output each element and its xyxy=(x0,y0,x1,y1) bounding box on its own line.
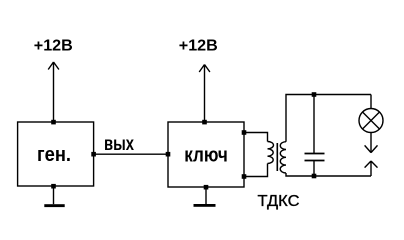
svg-text:+12В: +12В xyxy=(34,38,73,55)
wire вых xyxy=(94,153,168,155)
junction at generator box bottom xyxy=(51,184,56,189)
power arrow (right) xyxy=(199,65,210,123)
junction bottom rail / capacitor xyxy=(312,174,317,179)
ground wire (key) xyxy=(205,187,207,204)
generator box ген. xyxy=(18,122,94,186)
junction at key box bottom xyxy=(204,185,209,190)
transformer T1 secondary winding xyxy=(280,142,286,173)
ground bar (key) xyxy=(194,204,216,207)
junction вых left xyxy=(91,152,96,157)
capacitor plates xyxy=(305,154,325,161)
capacitor top lead xyxy=(313,95,315,154)
ground wire (generator) xyxy=(53,186,55,204)
wire lamp bottom xyxy=(370,133,372,153)
wire secondary bottom and bottom rail xyxy=(286,173,371,176)
svg-text:ТДКС: ТДКС xyxy=(258,193,300,210)
svg-text:ген.: ген. xyxy=(37,143,71,166)
power arrow (left) xyxy=(48,62,59,122)
junction primary top xyxy=(242,130,247,135)
wire secondary top and top rail xyxy=(286,95,371,142)
junction top rail / capacitor xyxy=(312,92,317,97)
junction primary bottom xyxy=(242,174,247,179)
spark gap arrow (down) xyxy=(365,145,378,152)
ground bar (generator) xyxy=(44,204,64,207)
lamp HL1 xyxy=(359,109,383,133)
svg-text:вых: вых xyxy=(104,133,134,155)
wire lamp top xyxy=(370,95,372,109)
wire from transformer primary bottom xyxy=(244,164,268,177)
junction вых right xyxy=(166,152,171,157)
transformer T1 primary winding xyxy=(268,142,274,164)
capacitor bottom lead xyxy=(313,161,315,177)
junction at generator box top xyxy=(51,120,56,125)
svg-text:+12В: +12В xyxy=(179,38,218,55)
junction at key box top xyxy=(202,120,207,125)
svg-text:ключ: ключ xyxy=(184,144,228,167)
wire to transformer primary top xyxy=(244,133,268,142)
spark gap arrow (up) xyxy=(365,161,378,176)
key box ключ xyxy=(168,122,244,187)
transformer core xyxy=(276,143,278,171)
